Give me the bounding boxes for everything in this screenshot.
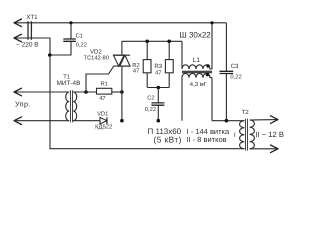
wire node B right to T2 [212, 120, 244, 122]
svg-text:II - 8 витков: II - 8 витков [186, 135, 226, 144]
output wire bottom ~12V [250, 148, 278, 150]
svg-text:47: 47 [155, 70, 161, 76]
output arrow top [271, 116, 279, 124]
T2 secondary winding II [250, 120, 255, 149]
svg-text:47: 47 [133, 69, 139, 75]
T2 core [246, 119, 248, 151]
wire R1 right to cathode line [112, 91, 122, 93]
svg-text:R1: R1 [101, 81, 108, 87]
junction dot C2 top [157, 86, 161, 90]
svg-text:C2: C2 [147, 94, 154, 101]
svg-text:VD1: VD1 [97, 111, 108, 117]
L1 polarity dot upper [206, 64, 209, 67]
svg-text:(5 кВт): (5 кВт) [154, 135, 182, 145]
resistor R3 [168, 41, 170, 59]
svg-text:МИТ-4В: МИТ-4В [57, 80, 81, 87]
T1 core [71, 90, 73, 122]
junction dot C1 bottom on neutral [48, 53, 52, 57]
wire Упр top to T1 [14, 91, 69, 93]
T1 secondary winding [73, 92, 77, 121]
junction dot R2 top [145, 40, 149, 44]
capacitor C1 [70, 23, 72, 39]
L1 polarity dot lower [206, 73, 209, 76]
capacitor C3 [225, 23, 227, 72]
svg-text:0,22: 0,22 [145, 106, 156, 113]
svg-text:0,22: 0,22 [76, 41, 87, 48]
svg-text:TC142-80: TC142-80 [84, 56, 109, 62]
transformer T2 [234, 109, 255, 150]
svg-text:II ~ 12 В: II ~ 12 В [255, 130, 284, 139]
connector XT1 bars [28, 21, 31, 39]
L1 lower winding [182, 73, 212, 77]
svg-text:I: I [234, 132, 236, 139]
wire T1 secondary top to R1 [73, 91, 96, 93]
capacitor C2 [157, 88, 159, 103]
junction dot L1 top rail [210, 21, 213, 24]
control input Упр arrows [14, 88, 22, 124]
wire Упр bottom to T1 [14, 120, 69, 122]
output arrow bottom [271, 145, 279, 153]
svg-text:0,22: 0,22 [230, 74, 241, 81]
inductor L1 [182, 21, 214, 121]
junction dot gate tap [84, 90, 88, 94]
junction dot R1-cathode [120, 90, 124, 94]
svg-text:Упр.: Упр. [15, 99, 31, 108]
svg-text:L1: L1 [193, 57, 201, 64]
wire triac anode top line [122, 40, 182, 42]
svg-text:КД522: КД522 [95, 124, 112, 131]
svg-text:R3: R3 [154, 63, 162, 70]
output wire top ~12V [250, 119, 278, 121]
wire snubber bottom U [147, 87, 169, 89]
L1 upper winding [182, 65, 212, 69]
svg-text:C1: C1 [76, 33, 83, 40]
connector XT1 arrows [14, 19, 22, 42]
svg-text:Ш 30х22: Ш 30х22 [179, 30, 211, 39]
junction dot C2 bottom [157, 119, 161, 123]
resistor R2 [146, 41, 148, 59]
svg-text:XT1: XT1 [26, 14, 38, 21]
transformer T1 [57, 75, 81, 123]
L1 left vertical from anode line [181, 41, 183, 69]
svg-text:4,3 мГ: 4,3 мГ [190, 81, 208, 88]
L1 lower left vertical down [181, 78, 183, 121]
svg-text:VD2: VD2 [90, 49, 102, 56]
wire mains neutral: XT1 line, down and bottom rail [14, 38, 244, 149]
wire top rail (mains live) [14, 22, 226, 24]
resistor R1 [97, 88, 112, 94]
wire cathode node line left [73, 120, 100, 122]
L1 lower right vertical down [211, 78, 213, 121]
L1 upper right vertical to top rail [211, 23, 213, 69]
svg-text:T2: T2 [242, 109, 250, 116]
junction dot triac cathode [120, 119, 124, 123]
T2 primary winding I [240, 121, 245, 149]
T1 primary winding [66, 92, 70, 121]
junction dot R3 top [167, 40, 171, 44]
svg-text:C3: C3 [231, 63, 239, 70]
svg-text:47: 47 [99, 96, 105, 102]
junction dot C1 top [69, 21, 72, 24]
junction dot C3 bottom [225, 119, 229, 123]
triac VD2 [113, 41, 130, 120]
L1 core [182, 71, 212, 72]
svg-text:~ 220 В: ~ 220 В [16, 42, 39, 49]
diode VD1 [100, 117, 107, 124]
wire gate lead [86, 66, 114, 92]
